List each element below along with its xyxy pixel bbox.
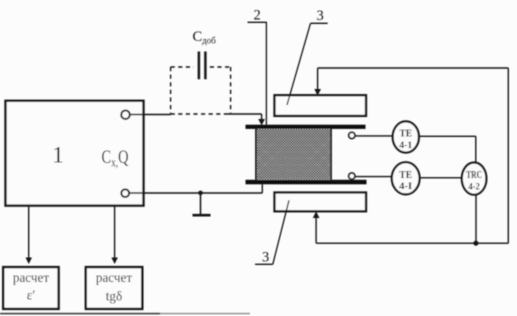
svg-text:TRC: TRC (466, 170, 482, 181)
svg-text:TE: TE (399, 169, 412, 181)
svg-text:4-2: 4-2 (468, 182, 480, 192)
svg-text:TE: TE (399, 128, 412, 140)
svg-text:3: 3 (262, 249, 269, 265)
svg-text:4-1: 4-1 (399, 141, 412, 151)
svg-text:tgδ: tgδ (106, 289, 122, 304)
svg-text:расчет: расчет (13, 270, 50, 285)
svg-text:2: 2 (254, 7, 261, 23)
svg-text:1: 1 (52, 143, 64, 168)
svg-text:расчет: расчет (96, 270, 133, 285)
svg-text:4-I: 4-I (399, 182, 412, 192)
svg-text:Cдоб: Cдоб (193, 29, 217, 45)
svg-text:3: 3 (317, 8, 324, 24)
svg-text:ε′: ε′ (27, 288, 36, 303)
